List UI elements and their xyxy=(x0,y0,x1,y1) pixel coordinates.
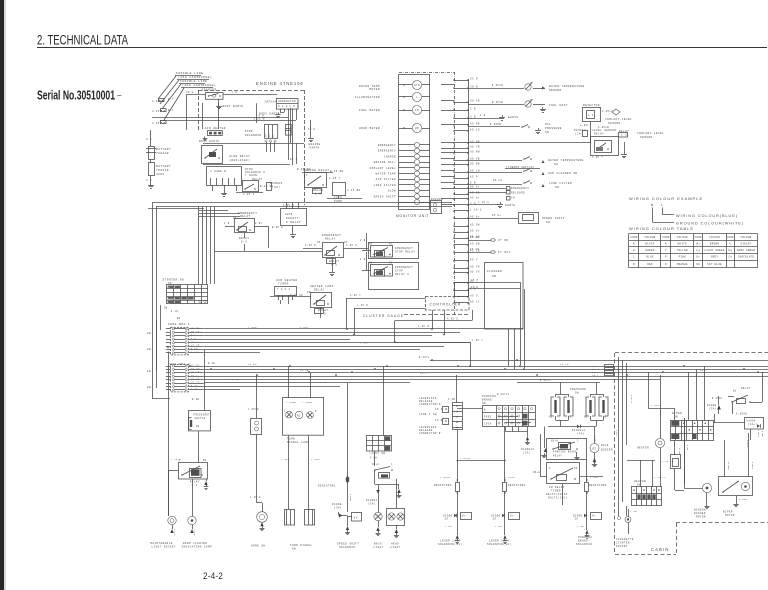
svg-text:4.85LY: 4.85LY xyxy=(602,110,613,113)
svg-text:AIR HEATER: AIR HEATER xyxy=(205,127,226,130)
svg-text:RESISTOR2: RESISTOR2 xyxy=(508,484,526,487)
svg-text:B 2B: B 2B xyxy=(192,398,200,401)
svg-text:SW: SW xyxy=(554,163,558,166)
svg-text:85 Y: 85 Y xyxy=(470,258,478,261)
svg-text:R2: R2 xyxy=(297,415,301,418)
svg-text:15 YG: 15 YG xyxy=(318,381,327,384)
svg-text:SW: SW xyxy=(545,131,549,134)
svg-text:HEATER: HEATER xyxy=(637,447,649,450)
svg-text:B: B xyxy=(633,243,635,246)
svg-text:MOTOR: MOTOR xyxy=(696,516,706,519)
svg-text:LIGHT: LIGHT xyxy=(391,546,401,549)
svg-text:R1R2: R1R2 xyxy=(168,298,175,301)
svg-text:RELAY: RELAY xyxy=(240,215,251,218)
svg-text:(3A): (3A) xyxy=(577,433,585,436)
svg-text:CONNECTOR'B': CONNECTOR'B' xyxy=(419,431,443,435)
svg-text:V: V xyxy=(729,243,731,246)
svg-text:15 YW: 15 YW xyxy=(560,363,569,366)
svg-text:WATER TEMPERATURE: WATER TEMPERATURE xyxy=(549,85,585,88)
svg-text:CODE: CODE xyxy=(630,236,638,239)
svg-text:8 W: 8 W xyxy=(259,115,265,118)
svg-text:75022R: 75022R xyxy=(156,169,169,172)
svg-text:WIRING COLOUR EXAMPLE: WIRING COLOUR EXAMPLE xyxy=(629,196,703,201)
svg-text:SIGNAL LAMP: SIGNAL LAMP xyxy=(287,441,309,444)
svg-text:3.0: 3.0 xyxy=(146,138,152,141)
svg-text:B 85YL: B 85YL xyxy=(540,379,551,382)
svg-text:33 R: 33 R xyxy=(470,77,478,80)
svg-text:FUEL METER: FUEL METER xyxy=(359,109,380,112)
svg-text:B2: B2 xyxy=(593,448,597,451)
svg-text:DARK GREEN: DARK GREEN xyxy=(737,249,756,252)
svg-text:STOP: STOP xyxy=(395,270,403,273)
svg-text:(3A+): (3A+) xyxy=(748,423,757,426)
svg-text:RACE: RACE xyxy=(601,444,609,447)
svg-text:LIGHT GREEN: LIGHT GREEN xyxy=(704,249,724,252)
svg-text:C: C xyxy=(549,467,551,470)
svg-text:L 85GB: L 85GB xyxy=(302,401,313,404)
svg-text:SENSOR: SENSOR xyxy=(608,122,621,125)
svg-text:B.85 BW: B.85 BW xyxy=(297,168,310,171)
svg-text:B.85 BW: B.85 BW xyxy=(330,170,343,173)
svg-text:1 4: 1 4 xyxy=(588,114,594,117)
svg-text:76022R: 76022R xyxy=(156,152,169,155)
svg-text:SKY BLUE: SKY BLUE xyxy=(707,263,722,266)
svg-text:(40A CARTRIDGE): (40A CARTRIDGE) xyxy=(182,83,216,87)
svg-text:85 GW: 85 GW xyxy=(470,236,479,239)
svg-text:85 RW: 85 RW xyxy=(470,162,480,165)
svg-text:ENGINE OIL/: ENGINE OIL/ xyxy=(374,160,396,164)
svg-text:SW: SW xyxy=(482,402,486,405)
svg-text:SOLENOID: SOLENOID xyxy=(339,546,355,549)
svg-text:B 2B: B 2B xyxy=(208,362,215,365)
svg-text:RESISTOR1: RESISTOR1 xyxy=(318,485,336,488)
svg-text:NO+A: NO+A xyxy=(551,440,558,443)
svg-text:9V: 9V xyxy=(354,517,358,520)
svg-text:EARTH: EARTH xyxy=(310,147,320,150)
svg-text:EMERGENCY: EMERGENCY xyxy=(378,144,396,147)
svg-text:L 75A+: L 75A+ xyxy=(659,410,662,418)
svg-text:CONTROLLER: CONTROLLER xyxy=(430,303,462,307)
svg-text:85 GW: 85 GW xyxy=(470,248,479,251)
svg-text:MONITOR UNIT: MONITOR UNIT xyxy=(396,214,429,218)
svg-text:W2: W2 xyxy=(733,390,737,393)
svg-text:CLUSTER GAUGE: CLUSTER GAUGE xyxy=(363,314,404,318)
svg-text:30 W: 30 W xyxy=(186,91,194,94)
svg-text:Br: Br xyxy=(696,243,700,246)
svg-text:CODE: CODE xyxy=(662,236,670,239)
svg-text:P: P xyxy=(665,256,667,259)
svg-text:CODE: CODE xyxy=(727,236,735,239)
svg-text:SWITCH: SWITCH xyxy=(195,417,206,420)
svg-text:42HV: 42HV xyxy=(156,173,165,176)
svg-text:BUZZER: BUZZER xyxy=(601,449,613,452)
svg-text:SOCKET: SOCKET xyxy=(616,545,628,548)
svg-text:L 8B: L 8B xyxy=(445,525,452,528)
svg-text:RESISTOR2: RESISTOR2 xyxy=(434,484,452,487)
svg-text:88 YB: 88 YB xyxy=(470,145,480,148)
svg-text:NC: NC xyxy=(574,467,578,470)
svg-text:NO: NO xyxy=(369,243,373,246)
svg-text:Sb: Sb xyxy=(696,262,700,266)
svg-text:BODY EARTH: BODY EARTH xyxy=(199,140,219,143)
svg-text:4.85 Y: 4.85 Y xyxy=(350,294,361,297)
svg-text:SW: SW xyxy=(292,548,296,551)
svg-text:15 GW: 15 GW xyxy=(248,363,257,366)
svg-text:4.85 Y: 4.85 Y xyxy=(243,193,255,196)
svg-text:BLUE: BLUE xyxy=(646,256,654,259)
svg-text:NC: NC xyxy=(389,262,393,265)
svg-text:HORN SW: HORN SW xyxy=(251,545,265,548)
svg-text:G 85L8: G 85L8 xyxy=(751,462,754,470)
svg-text:85 G+: 85 G+ xyxy=(470,229,480,232)
svg-text:EMERGENCY: EMERGENCY xyxy=(511,187,529,190)
svg-text:85 V: 85 V xyxy=(470,294,478,297)
svg-text:Dg: Dg xyxy=(728,249,732,252)
svg-text:B 85LYL: B 85LYL xyxy=(497,393,510,396)
svg-text:NC: NC xyxy=(389,243,393,246)
svg-text:88 YB: 88 YB xyxy=(470,157,480,160)
svg-text:AIR FILTER: AIR FILTER xyxy=(376,178,396,181)
svg-text:(2A): (2A) xyxy=(575,132,583,136)
svg-text:1.5B: 1.5B xyxy=(448,398,455,401)
svg-text:L 35W: L 35W xyxy=(248,326,257,329)
svg-text:STOP RELAY 1: STOP RELAY 1 xyxy=(395,251,419,254)
svg-text:SOLENOID(S1): SOLENOID(S1) xyxy=(438,542,462,546)
svg-text:CHOCOLATE: CHOCOLATE xyxy=(738,256,755,259)
svg-text:85 G+: 85 G+ xyxy=(470,215,480,218)
svg-text:2 B: 2 B xyxy=(470,115,476,118)
svg-text:RELAY: RELAY xyxy=(314,289,325,292)
svg-text:NO: NO xyxy=(549,416,553,419)
svg-text:RED: RED xyxy=(647,263,653,266)
svg-text:BATTERY: BATTERY xyxy=(156,148,171,151)
svg-text:B 85YL: B 85YL xyxy=(419,356,430,359)
svg-text:NO: NO xyxy=(196,425,200,428)
svg-text:RELAY: RELAY xyxy=(594,133,604,136)
svg-text:RELAY 2: RELAY 2 xyxy=(395,273,409,276)
svg-text:Serial No.30510001: Serial No.30510001 xyxy=(37,88,115,103)
svg-text:W: W xyxy=(665,243,667,246)
svg-text:85 G+: 85 G+ xyxy=(470,196,480,199)
svg-text:L 85LW: L 85LW xyxy=(505,476,516,479)
svg-text:E RELAY: E RELAY xyxy=(286,221,301,224)
svg-text:L: L xyxy=(633,256,635,259)
svg-text:2 B: 2 B xyxy=(480,114,486,117)
svg-text:Y: Y xyxy=(665,249,667,252)
svg-text:4.85Y: 4.85Y xyxy=(152,100,162,103)
svg-text:2A: 2A xyxy=(575,518,579,521)
svg-text:SW: SW xyxy=(555,186,559,189)
svg-text:2 BY: 2 BY xyxy=(255,222,263,225)
svg-text:G 85L8: G 85L8 xyxy=(757,430,760,438)
svg-text:NO: NO xyxy=(369,262,373,265)
svg-text:B.Y: B.Y xyxy=(168,109,174,112)
svg-text:B 85YB: B 85YB xyxy=(492,101,503,104)
svg-text:PRESSURE: PRESSURE xyxy=(545,127,562,130)
svg-text:GLOW RELAY: GLOW RELAY xyxy=(229,155,250,158)
svg-text:L 15-1: L 15-1 xyxy=(478,201,489,204)
svg-text:1B: 1B xyxy=(147,370,151,373)
svg-text:COOLANT LEVEL: COOLANT LEVEL xyxy=(605,118,632,121)
svg-text:NO: NO xyxy=(317,241,321,244)
svg-text:WHITE: WHITE xyxy=(678,243,687,246)
svg-text:RELAY(1W/2A: RELAY(1W/2A xyxy=(546,492,568,496)
svg-text:FUEL UNIT: FUEL UNIT xyxy=(549,104,568,107)
svg-text:YELLOW: YELLOW xyxy=(677,249,688,252)
svg-text:RELAY: RELAY xyxy=(741,387,751,390)
svg-text:3.0: 3.0 xyxy=(146,179,152,182)
svg-text:4.85 Z: 4.85 Z xyxy=(447,318,458,321)
svg-text:C: C xyxy=(168,301,170,304)
svg-text:LINE FILTER: LINE FILTER xyxy=(549,182,572,185)
svg-text:RELAY: RELAY xyxy=(325,238,336,241)
svg-text:TIMER: TIMER xyxy=(278,283,289,286)
svg-text:ACC: ACC xyxy=(168,294,173,297)
svg-text:STARTER SW: STARTER SW xyxy=(163,279,185,282)
svg-text:Ch: Ch xyxy=(728,255,732,259)
svg-text:85 LW: 85 LW xyxy=(470,169,480,172)
svg-text:R: R xyxy=(315,410,317,413)
svg-text:COLOUR: COLOUR xyxy=(709,236,720,239)
svg-text:1.25 LY: 1.25 LY xyxy=(654,476,666,479)
svg-text:2W: 2W xyxy=(164,307,168,310)
svg-text:1 LY: 1 LY xyxy=(191,351,198,354)
svg-text:B.85 W: B.85 W xyxy=(272,226,283,229)
svg-text:FM: FM xyxy=(415,109,419,112)
svg-text:INDICATING LAMP: INDICATING LAMP xyxy=(182,546,213,549)
svg-text:CH: CH xyxy=(511,197,515,200)
svg-text:0.850W: 0.850W xyxy=(736,413,747,416)
svg-text:L 8B: L 8B xyxy=(495,525,502,528)
svg-text:COLOUR: COLOUR xyxy=(644,236,655,239)
svg-text:L 35 Y: L 35 Y xyxy=(472,339,483,342)
svg-text:COLOUR: COLOUR xyxy=(677,236,688,239)
svg-text:4.85 BW: 4.85 BW xyxy=(347,189,360,192)
svg-text:EMERGENCY: EMERGENCY xyxy=(378,150,396,153)
svg-text:2 LG: 2 LG xyxy=(171,310,179,313)
svg-text:2 B: 2 B xyxy=(360,258,366,261)
svg-text:2A: 2A xyxy=(445,518,449,521)
svg-text:3 2 1: 3 2 1 xyxy=(265,135,274,138)
svg-text:PINK: PINK xyxy=(679,256,687,259)
svg-text:1-1: 1-1 xyxy=(621,134,627,137)
svg-text:1.25 G: 1.25 G xyxy=(250,496,261,499)
svg-text:SW: SW xyxy=(575,392,579,395)
svg-text:DETECTOR: DETECTOR xyxy=(583,104,600,107)
svg-text:G: G xyxy=(633,249,635,252)
svg-text:(3A): (3A) xyxy=(368,503,376,506)
svg-text:ILLUMINATION: ILLUMINATION xyxy=(355,96,380,99)
svg-text:COOLANT LEVEL: COOLANT LEVEL xyxy=(370,167,396,170)
svg-text:A: A xyxy=(179,459,181,462)
svg-text:2 B: 2 B xyxy=(224,222,230,225)
svg-text:L 85LB: L 85LB xyxy=(460,457,471,460)
svg-text:L 15A: L 15A xyxy=(612,368,621,371)
svg-text:Gr: Gr xyxy=(696,256,700,259)
svg-text:MULTI(2W)): MULTI(2W)) xyxy=(548,496,568,500)
svg-text:5 YG: 5 YG xyxy=(191,388,198,391)
svg-text:2-4-2: 2-4-2 xyxy=(203,570,223,581)
svg-text:SAFETY: SAFETY xyxy=(286,217,299,220)
svg-text:(3A): (3A) xyxy=(523,452,531,455)
svg-text:HOUR METER: HOUR METER xyxy=(359,127,380,130)
svg-text:L: L xyxy=(284,410,286,413)
svg-text:WATER TEMPERATURE: WATER TEMPERATURE xyxy=(548,159,584,162)
svg-text:L 35Y: L 35Y xyxy=(360,342,369,345)
svg-text:2 B: 2 B xyxy=(470,202,476,205)
svg-text:SW: SW xyxy=(177,317,181,320)
svg-text:RELAY: RELAY xyxy=(553,455,562,458)
svg-text:B: B xyxy=(168,286,170,289)
svg-text:2AF02A: 2AF02A xyxy=(265,100,277,103)
svg-text:L 85GW: L 85GW xyxy=(286,401,297,404)
svg-text:4.85Y: 4.85Y xyxy=(300,326,309,329)
svg-text:GENERATOR: GENERATOR xyxy=(278,100,296,103)
svg-text:4.85 Y: 4.85 Y xyxy=(329,177,341,180)
svg-text:(3A): (3A) xyxy=(272,185,280,189)
svg-text:15 Y: 15 Y xyxy=(592,374,599,377)
svg-text:SW: SW xyxy=(492,275,496,278)
svg-text:BR: BR xyxy=(168,290,172,293)
svg-text:85 RB: 85 RB xyxy=(470,122,480,125)
svg-text:85 B: 85 B xyxy=(471,286,479,289)
svg-text:RESISTOR3: RESISTOR3 xyxy=(589,484,607,487)
svg-text:C: C xyxy=(391,463,393,466)
svg-text:C GAEE B: C GAEE B xyxy=(210,170,226,173)
svg-text:~: ~ xyxy=(117,92,122,101)
svg-text:L 15-1: L 15-1 xyxy=(470,208,482,211)
svg-text:2 B: 2 B xyxy=(470,107,476,110)
svg-text:STARTER: STARTER xyxy=(202,89,217,92)
svg-text:W: W xyxy=(651,203,653,207)
svg-text:15 Y: 15 Y xyxy=(700,369,707,372)
svg-text:SOLENOID: SOLENOID xyxy=(245,134,262,137)
svg-text:FREE: FREE xyxy=(484,416,492,419)
svg-text:EARTH: EARTH xyxy=(505,204,516,207)
svg-text:85 GW: 85 GW xyxy=(470,242,480,245)
svg-text:L: L xyxy=(416,96,418,99)
svg-text:15 YB: 15 YB xyxy=(300,369,309,372)
svg-text:C: C xyxy=(306,174,308,177)
svg-text:SW: SW xyxy=(637,484,641,487)
svg-text:ORANGE: ORANGE xyxy=(677,263,688,266)
svg-text:VIOLET: VIOLET xyxy=(740,243,751,246)
svg-text:L 85G: L 85G xyxy=(281,458,290,461)
svg-text:NO: NO xyxy=(584,416,588,419)
svg-text:L 85LG: L 85LG xyxy=(651,404,662,407)
svg-text:L 35 W: L 35 W xyxy=(357,304,368,307)
svg-text:EMERGENCY: EMERGENCY xyxy=(395,266,413,269)
svg-text:4.85 Y: 4.85 Y xyxy=(592,156,603,159)
svg-text:B 85RL: B 85RL xyxy=(712,397,723,400)
svg-text:1P B: 1P B xyxy=(435,419,443,422)
svg-text:T 0A0N: T 0A0N xyxy=(245,174,257,177)
svg-text:FT OUT: FT OUT xyxy=(498,251,511,254)
svg-text:NO+A: NO+A xyxy=(372,463,379,466)
svg-text:LIGHT: LIGHT xyxy=(374,546,384,549)
svg-text:WL 85LW: WL 85LW xyxy=(727,462,730,471)
svg-text:LIGHT SOCKET: LIGHT SOCKET xyxy=(152,546,176,549)
svg-text:T 0 6 4: T 0 6 4 xyxy=(277,288,290,291)
svg-text:4.85 W: 4.85 W xyxy=(418,325,429,328)
svg-text:2 B: 2 B xyxy=(470,181,476,184)
svg-text:RELEASE: RELEASE xyxy=(511,192,525,195)
svg-text:MOTOR: MOTOR xyxy=(725,514,735,517)
svg-text:GROUND COLOUR(WHITE): GROUND COLOUR(WHITE) xyxy=(676,222,744,226)
svg-text:85 YR: 85 YR xyxy=(470,265,480,268)
svg-text:BODY EARTH: BODY EARTH xyxy=(223,105,244,108)
svg-text:SOLENOID(S2): SOLENOID(S2) xyxy=(487,542,511,546)
svg-text:85 WB: 85 WB xyxy=(470,140,480,143)
svg-text:Lg: Lg xyxy=(696,249,700,252)
svg-text:1.25 W: 1.25 W xyxy=(283,204,294,207)
svg-text:SW: SW xyxy=(546,221,550,224)
svg-text:PARKING BRAKE: PARKING BRAKE xyxy=(553,451,577,454)
svg-text:D+: D+ xyxy=(510,515,514,518)
svg-text:1.25YB: 1.25YB xyxy=(349,494,352,502)
svg-text:85 LY: 85 LY xyxy=(470,300,480,303)
svg-text:1P A: 1P A xyxy=(435,408,443,411)
svg-text:2. TECHNICAL DATA: 2. TECHNICAL DATA xyxy=(37,33,128,49)
svg-text:B 85YW: B 85YW xyxy=(492,84,503,87)
svg-text:85 G+: 85 G+ xyxy=(492,214,501,217)
svg-text:E I 8 L P 8: E I 8 L P 8 xyxy=(278,105,299,108)
svg-text:15 Y: 15 Y xyxy=(420,372,427,375)
svg-text:FUSE BOX 1: FUSE BOX 1 xyxy=(168,323,190,326)
svg-text:L 85G: L 85G xyxy=(311,458,320,461)
svg-text:LOCK: LOCK xyxy=(484,423,492,426)
svg-text:B: B xyxy=(484,409,486,412)
svg-text:85 LW: 85 LW xyxy=(493,179,502,182)
svg-text:HM: HM xyxy=(415,127,419,130)
svg-text:B5 R: B5 R xyxy=(290,158,298,161)
svg-text:85 YG: 85 YG xyxy=(470,270,480,273)
svg-text:METER: METER xyxy=(369,88,380,91)
svg-text:CONNECTOR'A': CONNECTOR'A' xyxy=(419,402,443,406)
svg-text:L 8B: L 8B xyxy=(630,510,637,513)
svg-text:BLACK: BLACK xyxy=(645,243,654,246)
svg-text:4 BW: 4 BW xyxy=(370,457,377,460)
svg-text:4.85 L: 4.85 L xyxy=(594,436,597,444)
svg-text:WATER TEMP: WATER TEMP xyxy=(376,173,396,176)
svg-text:NO+A: NO+A xyxy=(533,471,540,474)
svg-text:(3A): (3A) xyxy=(709,408,717,411)
svg-text:85 Y: 85 Y xyxy=(471,279,479,282)
svg-text:CHARGE: CHARGE xyxy=(384,155,396,158)
svg-text:85 G+: 85 G+ xyxy=(470,185,480,188)
svg-text:FLASHER: FLASHER xyxy=(487,270,502,273)
svg-text:BROWN: BROWN xyxy=(710,243,719,246)
svg-text:SENSOR: SENSOR xyxy=(640,136,653,139)
svg-text:OIL: OIL xyxy=(545,123,551,126)
svg-text:G 85L: G 85L xyxy=(686,445,689,452)
svg-text:C: C xyxy=(577,440,579,443)
svg-text:(3A): (3A) xyxy=(334,506,342,510)
svg-text:85 P: 85 P xyxy=(470,175,478,178)
svg-text:1.0: 1.0 xyxy=(232,91,238,94)
svg-text:GREY: GREY xyxy=(711,256,719,259)
svg-text:GWYR: GWYR xyxy=(285,213,293,216)
svg-text:4.85 R: 4.85 R xyxy=(305,244,316,247)
svg-text:LIGHT SW: LIGHT SW xyxy=(370,452,386,455)
svg-text:SPEED SHIFT: SPEED SHIFT xyxy=(542,217,565,220)
svg-text:85 LG: 85 LG xyxy=(470,128,480,131)
svg-text:FT ON: FT ON xyxy=(498,239,509,242)
svg-text:(W86L1F8K): (W86L1F8K) xyxy=(229,158,250,162)
svg-text:EMERGENCY: EMERGENCY xyxy=(395,247,413,250)
svg-text:O: O xyxy=(665,263,667,266)
svg-text:88 YB: 88 YB xyxy=(470,99,480,102)
